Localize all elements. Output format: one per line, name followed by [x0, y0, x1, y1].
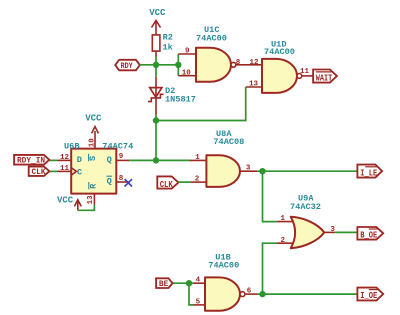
wire U1B out up to U9A.2 [263, 243, 277, 294]
svg-text:BE: BE [159, 281, 169, 289]
svg-text:11: 11 [300, 68, 310, 76]
svg-text:74AC32: 74AC32 [290, 202, 321, 212]
wire U1C.8 to U1D.12 [236, 64, 262, 66]
wire CLK to U8A.2 [178, 181, 190, 183]
svg-text:2: 2 [195, 176, 200, 184]
wire R2 to RDY net [155, 57, 157, 65]
svg-text:74AC00: 74AC00 [196, 34, 227, 44]
svg-text:RDY_IN: RDY_IN [17, 157, 45, 165]
svg-text:74AC00: 74AC00 [208, 260, 239, 270]
svg-text:10: 10 [88, 138, 96, 148]
svg-text:1k: 1k [163, 43, 173, 53]
U8A pin 2 [191, 181, 207, 183]
U6B pin 9 (Q) wire [116, 159, 129, 161]
label WAIT [313, 70, 337, 85]
or U9A 74AC32 [290, 194, 324, 249]
svg-text:C: C [77, 167, 82, 177]
flip-flop U6B 74AC74 [64, 141, 133, 193]
U1D pin 13 [246, 86, 262, 88]
svg-text:9: 9 [119, 153, 124, 161]
U9A pin 2 [277, 242, 294, 244]
svg-text:I_OE: I_OE [360, 290, 377, 301]
label B_OE [357, 227, 383, 241]
wire U1C input tie [177, 54, 179, 76]
wire RDY to junction [140, 64, 178, 66]
svg-text:74AC74: 74AC74 [102, 141, 133, 151]
U6B pin 12 wire [49, 159, 57, 161]
svg-text:1: 1 [195, 154, 200, 162]
U9A pin 3 output [324, 231, 335, 233]
U1B pin 4 [194, 282, 206, 284]
svg-text:1: 1 [281, 215, 286, 223]
svg-text:74AC00: 74AC00 [264, 47, 295, 57]
junction (I_OE net) [259, 291, 265, 297]
svg-text:D: D [77, 155, 82, 165]
wire I_LE net down to U9A.1 [263, 171, 277, 221]
label CLK (to U6B) [29, 167, 50, 178]
U1C pin 10 [178, 75, 196, 77]
U1D output pin 11 [302, 75, 313, 77]
svg-text:74AC08: 74AC08 [213, 137, 244, 147]
svg-text:3: 3 [246, 165, 251, 173]
power VCC top (above R2) [149, 8, 166, 35]
diode D2 1N5817 [148, 65, 196, 121]
U1B pin 5 [194, 304, 206, 306]
svg-text:1N5817: 1N5817 [165, 95, 196, 105]
svg-text:I_LE: I_LE [360, 167, 377, 178]
svg-text:2: 2 [281, 237, 286, 245]
svg-text:9: 9 [185, 48, 190, 56]
junction (BE net) [186, 280, 192, 286]
wire cathode net down to Q net [155, 121, 157, 161]
svg-text:13: 13 [249, 81, 259, 89]
svg-text:8: 8 [119, 175, 124, 183]
svg-text:S: S [88, 156, 98, 161]
label I_LE [357, 165, 382, 179]
label BE [156, 278, 172, 289]
svg-text:CLK: CLK [160, 179, 174, 190]
svg-text:11: 11 [60, 165, 70, 173]
svg-text:VCC: VCC [57, 195, 74, 205]
svg-text:8: 8 [236, 59, 241, 67]
junction (Q net) [153, 157, 159, 163]
U6B pin 8 (Qbar) wire [116, 181, 129, 183]
junction (R2/D2/RDY) [153, 62, 159, 68]
wire cathode net to U1D.13 [156, 87, 246, 121]
U1C pin 9 [178, 53, 196, 55]
svg-text:VCC: VCC [85, 114, 102, 124]
svg-text:U6B: U6B [64, 141, 79, 151]
U8A pin 1 [190, 159, 207, 161]
label RDY [115, 60, 140, 71]
U9A pin 1 [277, 221, 294, 223]
label RDY_IN [14, 155, 49, 166]
svg-text:6: 6 [247, 288, 252, 296]
svg-text:Q: Q [107, 177, 112, 187]
svg-text:12: 12 [60, 154, 70, 162]
U6B pin 11 wire [49, 170, 57, 172]
power VCC (above U6B) [85, 114, 102, 142]
wire VCC to U6B pin 13 [78, 205, 95, 210]
svg-text:B_OE: B_OE [360, 229, 377, 240]
U1B pin 6 output [245, 293, 257, 295]
svg-text:5: 5 [196, 299, 201, 307]
U6B pin 10 wire (S to VCC) [94, 142, 96, 149]
svg-text:WAIT: WAIT [316, 74, 332, 84]
svg-text:R2: R2 [163, 32, 173, 42]
svg-text:RDY: RDY [121, 63, 134, 72]
svg-text:3: 3 [330, 226, 335, 234]
svg-text:R: R [88, 183, 98, 189]
and U8A 74AC08 [206, 129, 244, 187]
resistor R2 [152, 32, 173, 56]
power VCC (below U6B) [57, 195, 81, 210]
junction (I_LE net) [259, 168, 265, 174]
no-connect X pin 8 [125, 179, 132, 186]
svg-text:10: 10 [182, 69, 192, 77]
svg-text:Q: Q [107, 155, 112, 165]
svg-text:VCC: VCC [149, 8, 166, 18]
svg-text:4: 4 [196, 277, 201, 285]
wire BE tie [173, 282, 194, 284]
nand U1C 74AC00 [196, 25, 236, 82]
U8A pin 3 output [240, 170, 257, 172]
nand U1D 74AC00 [262, 40, 302, 93]
label I_OE [357, 288, 383, 302]
nand U1B 74AC00 [205, 253, 245, 311]
junction (U1C inputs) [175, 62, 181, 68]
svg-text:12: 12 [250, 59, 260, 67]
junction (D2 cathode net) [153, 117, 159, 123]
svg-text:CLK: CLK [32, 169, 46, 177]
label CLK (to U8A) [157, 176, 178, 190]
